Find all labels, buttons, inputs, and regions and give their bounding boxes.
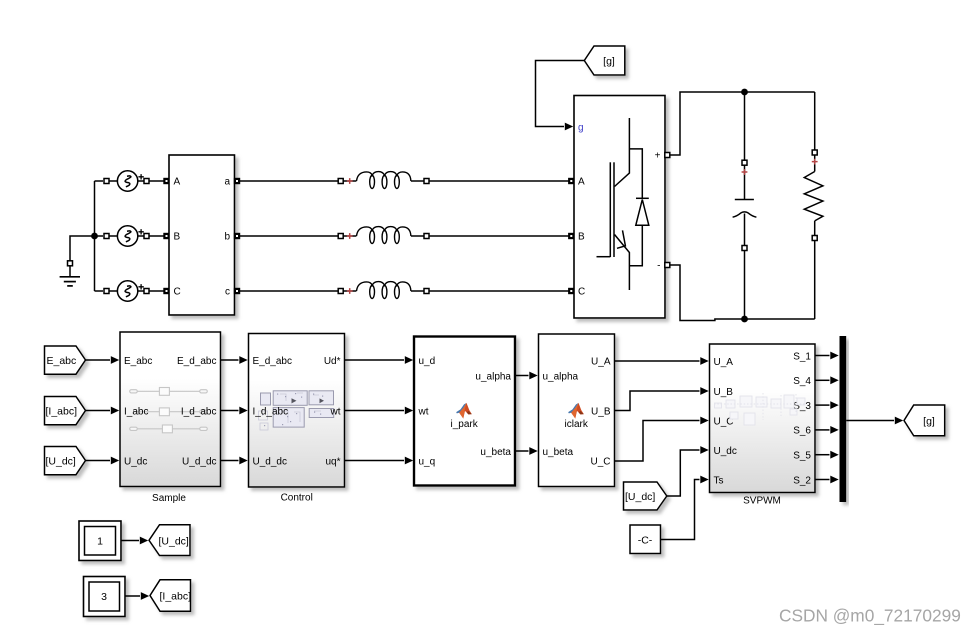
matlab logo	[456, 403, 472, 419]
port marker -	[665, 263, 670, 268]
svg-text:I_d_abc: I_d_abc	[253, 406, 289, 417]
svg-text:A: A	[174, 177, 181, 188]
constant block 3	[84, 577, 126, 617]
wire -C- to SVPWM Ts	[661, 476, 709, 540]
wire S_3 to mux	[815, 401, 839, 409]
port marker +	[665, 153, 670, 158]
From tag [U_dc] lower	[624, 482, 667, 510]
svg-text:Ud*: Ud*	[324, 356, 341, 367]
svg-text:[U_dc]: [U_dc]	[46, 456, 76, 468]
svg-text:E_abc: E_abc	[124, 356, 152, 367]
wire Ud* to i_park	[345, 356, 414, 364]
svpwm thumbnail	[714, 393, 806, 425]
svg-text:u_q: u_q	[419, 457, 436, 468]
From tag [U_dc]	[45, 447, 86, 475]
port marker conv C	[568, 288, 574, 294]
svg-text:CSDN @m0_72170299: CSDN @m0_72170299	[779, 606, 961, 626]
Goto tag [I_abc]	[150, 580, 191, 612]
matlab logo	[568, 403, 584, 419]
port marker c	[234, 288, 240, 294]
wire [I_abc] to Sample	[86, 407, 120, 415]
capacitor C1 branch	[733, 92, 757, 319]
port marker conv B	[568, 233, 574, 239]
constant -C-	[630, 525, 661, 554]
subsystem SVPWM	[710, 344, 816, 493]
node DC- junction	[741, 316, 748, 323]
wire bus to source B	[95, 235, 104, 237]
svg-text:U_C: U_C	[590, 457, 610, 468]
svg-text:C: C	[174, 287, 181, 298]
wire c to inductor Lc	[240, 290, 338, 292]
Goto tag [U_dc]	[149, 525, 190, 556]
svg-text:[I_abc]: [I_abc]	[46, 406, 78, 418]
ground	[60, 236, 95, 286]
wire b to inductor Lb	[240, 235, 338, 237]
svg-text:S_6: S_6	[793, 426, 811, 437]
svg-text:iclark: iclark	[565, 419, 589, 430]
svg-text:A: A	[578, 177, 585, 188]
svg-text:SVPWM: SVPWM	[743, 495, 781, 506]
svg-text:U_B: U_B	[714, 387, 734, 398]
wire wt to i_park	[345, 407, 414, 415]
svg-text:3: 3	[101, 591, 107, 603]
svg-text:C: C	[578, 287, 585, 298]
wire [g] to converter g	[536, 61, 585, 131]
resistor R1 branch	[804, 92, 823, 319]
wire U_B to SVPWM	[615, 387, 709, 410]
wire - to DC bottom rail	[670, 265, 815, 321]
svg-text:Sample: Sample	[152, 493, 186, 504]
svg-text:wt: wt	[418, 406, 429, 417]
svg-text:S_1: S_1	[793, 351, 811, 362]
wire source C to block	[149, 290, 166, 292]
svg-text:+: +	[655, 151, 661, 162]
svg-text:U_dc: U_dc	[714, 446, 737, 457]
wire mux to [g]	[846, 417, 903, 425]
svg-text:[g]: [g]	[603, 56, 615, 68]
node N (source common bus)	[91, 181, 98, 291]
wire 3 to [I_abc] goto	[125, 592, 149, 600]
From tag [I_abc]	[45, 397, 86, 425]
svg-text:S_5: S_5	[793, 450, 811, 461]
control thumbnails	[261, 391, 334, 427]
wire source A to block	[149, 180, 166, 182]
mux	[840, 336, 847, 502]
svg-text:-: -	[657, 261, 660, 272]
port marker b	[234, 233, 240, 239]
wire [U_dc] to Sample	[86, 457, 120, 465]
inductor La	[338, 172, 429, 189]
svg-text:[g]: [g]	[923, 416, 935, 428]
svg-text:[I_abc]: [I_abc]	[160, 591, 192, 603]
svg-text:Ts: Ts	[714, 475, 724, 486]
wire 1 to [U_dc] goto	[121, 537, 148, 545]
wire a to inductor La	[240, 180, 338, 182]
svg-text:B: B	[578, 232, 585, 243]
svg-text:E_d_abc: E_d_abc	[253, 356, 292, 367]
node DC+ junction	[741, 89, 748, 96]
svg-text:U_dc: U_dc	[124, 457, 147, 468]
MATLAB function block iclark	[539, 334, 615, 487]
svg-text:U_B: U_B	[591, 406, 611, 417]
AC source Vc	[104, 281, 149, 301]
svg-text:U_d_dc: U_d_dc	[253, 457, 287, 468]
wire La to converter A	[429, 180, 571, 182]
svg-text:[U_dc]: [U_dc]	[625, 491, 655, 503]
wire uq* to i_park	[345, 457, 414, 465]
svg-text:E_abc: E_abc	[47, 355, 77, 367]
wire E_abc to Sample	[86, 356, 120, 364]
subsystem Control	[249, 334, 345, 488]
inductor Lc	[338, 282, 429, 299]
svg-text:[U_dc]: [U_dc]	[159, 535, 189, 547]
svg-text:1: 1	[97, 535, 103, 547]
svg-text:c: c	[225, 287, 230, 298]
svg-text:g: g	[578, 123, 584, 134]
svg-text:u_beta: u_beta	[543, 447, 574, 458]
port marker C	[163, 288, 169, 294]
wire u_alpha to iclark	[515, 372, 538, 380]
subsystem Sample	[120, 332, 221, 487]
port marker conv A	[568, 178, 574, 184]
wire S_5 to mux	[815, 451, 839, 459]
inductor Lb	[338, 227, 429, 244]
svg-text:-C-: -C-	[638, 535, 653, 547]
svg-text:U_A: U_A	[591, 356, 611, 367]
wire Lb to converter B	[429, 235, 571, 237]
wire Lc to converter C	[429, 290, 571, 292]
three-phase measurement block	[169, 155, 235, 315]
wire S_4 to mux	[815, 376, 839, 384]
IGBT Q inside converter	[597, 118, 630, 290]
AC source Vb	[104, 226, 149, 246]
From tag [g] top	[584, 46, 625, 75]
wire u_beta to iclark	[515, 447, 538, 455]
svg-text:u_alpha: u_alpha	[475, 371, 511, 382]
svg-text:U_d_dc: U_d_dc	[182, 457, 216, 468]
svg-text:uq*: uq*	[325, 457, 340, 468]
converter bridge block U1	[574, 96, 665, 319]
wire S_1 to mux	[815, 352, 839, 360]
svg-text:S_2: S_2	[793, 475, 811, 486]
wire U_C to SVPWM	[615, 417, 709, 461]
svg-text:B: B	[174, 232, 181, 243]
wire bus to source C	[95, 290, 104, 292]
svg-text:u_beta: u_beta	[480, 447, 511, 458]
wire source B to block	[149, 235, 166, 237]
svg-text:u_d: u_d	[419, 356, 436, 367]
svg-text:U_A: U_A	[714, 357, 734, 368]
svg-text:i_park: i_park	[450, 419, 478, 430]
svg-text:I_d_abc: I_d_abc	[181, 406, 217, 417]
port marker A	[163, 178, 169, 184]
svg-text:u_alpha: u_alpha	[543, 371, 579, 382]
wire + to DC top rail	[670, 92, 815, 155]
port marker a	[234, 178, 240, 184]
diode D inside converter	[629, 149, 648, 266]
svg-text:S_4: S_4	[793, 376, 811, 387]
wire bus to source A	[95, 180, 104, 182]
wire I_d_abc to Control	[221, 407, 248, 415]
wire E_d_abc to Control	[221, 356, 248, 364]
constant block 1	[79, 521, 121, 561]
wire U_d_dc to Control	[221, 457, 248, 465]
From tag E_abc	[45, 346, 86, 374]
svg-text:b: b	[224, 232, 230, 243]
svg-text:E_d_abc: E_d_abc	[177, 356, 216, 367]
slider thumbnails	[130, 388, 208, 433]
svg-text:I_abc: I_abc	[124, 406, 148, 417]
wire S_2 to mux	[815, 476, 839, 484]
wire U_A to SVPWM	[615, 357, 709, 365]
svg-text:a: a	[224, 177, 230, 188]
svg-text:wt: wt	[330, 406, 341, 417]
AC source Va	[104, 171, 149, 191]
MATLAB function block i_park	[414, 337, 515, 486]
port marker B	[163, 233, 169, 239]
wire [U_dc] to SVPWM U_dc	[667, 446, 709, 496]
svg-text:Control: Control	[281, 492, 313, 503]
Goto tag [g] right	[904, 405, 945, 436]
wire S_6 to mux	[815, 426, 839, 434]
